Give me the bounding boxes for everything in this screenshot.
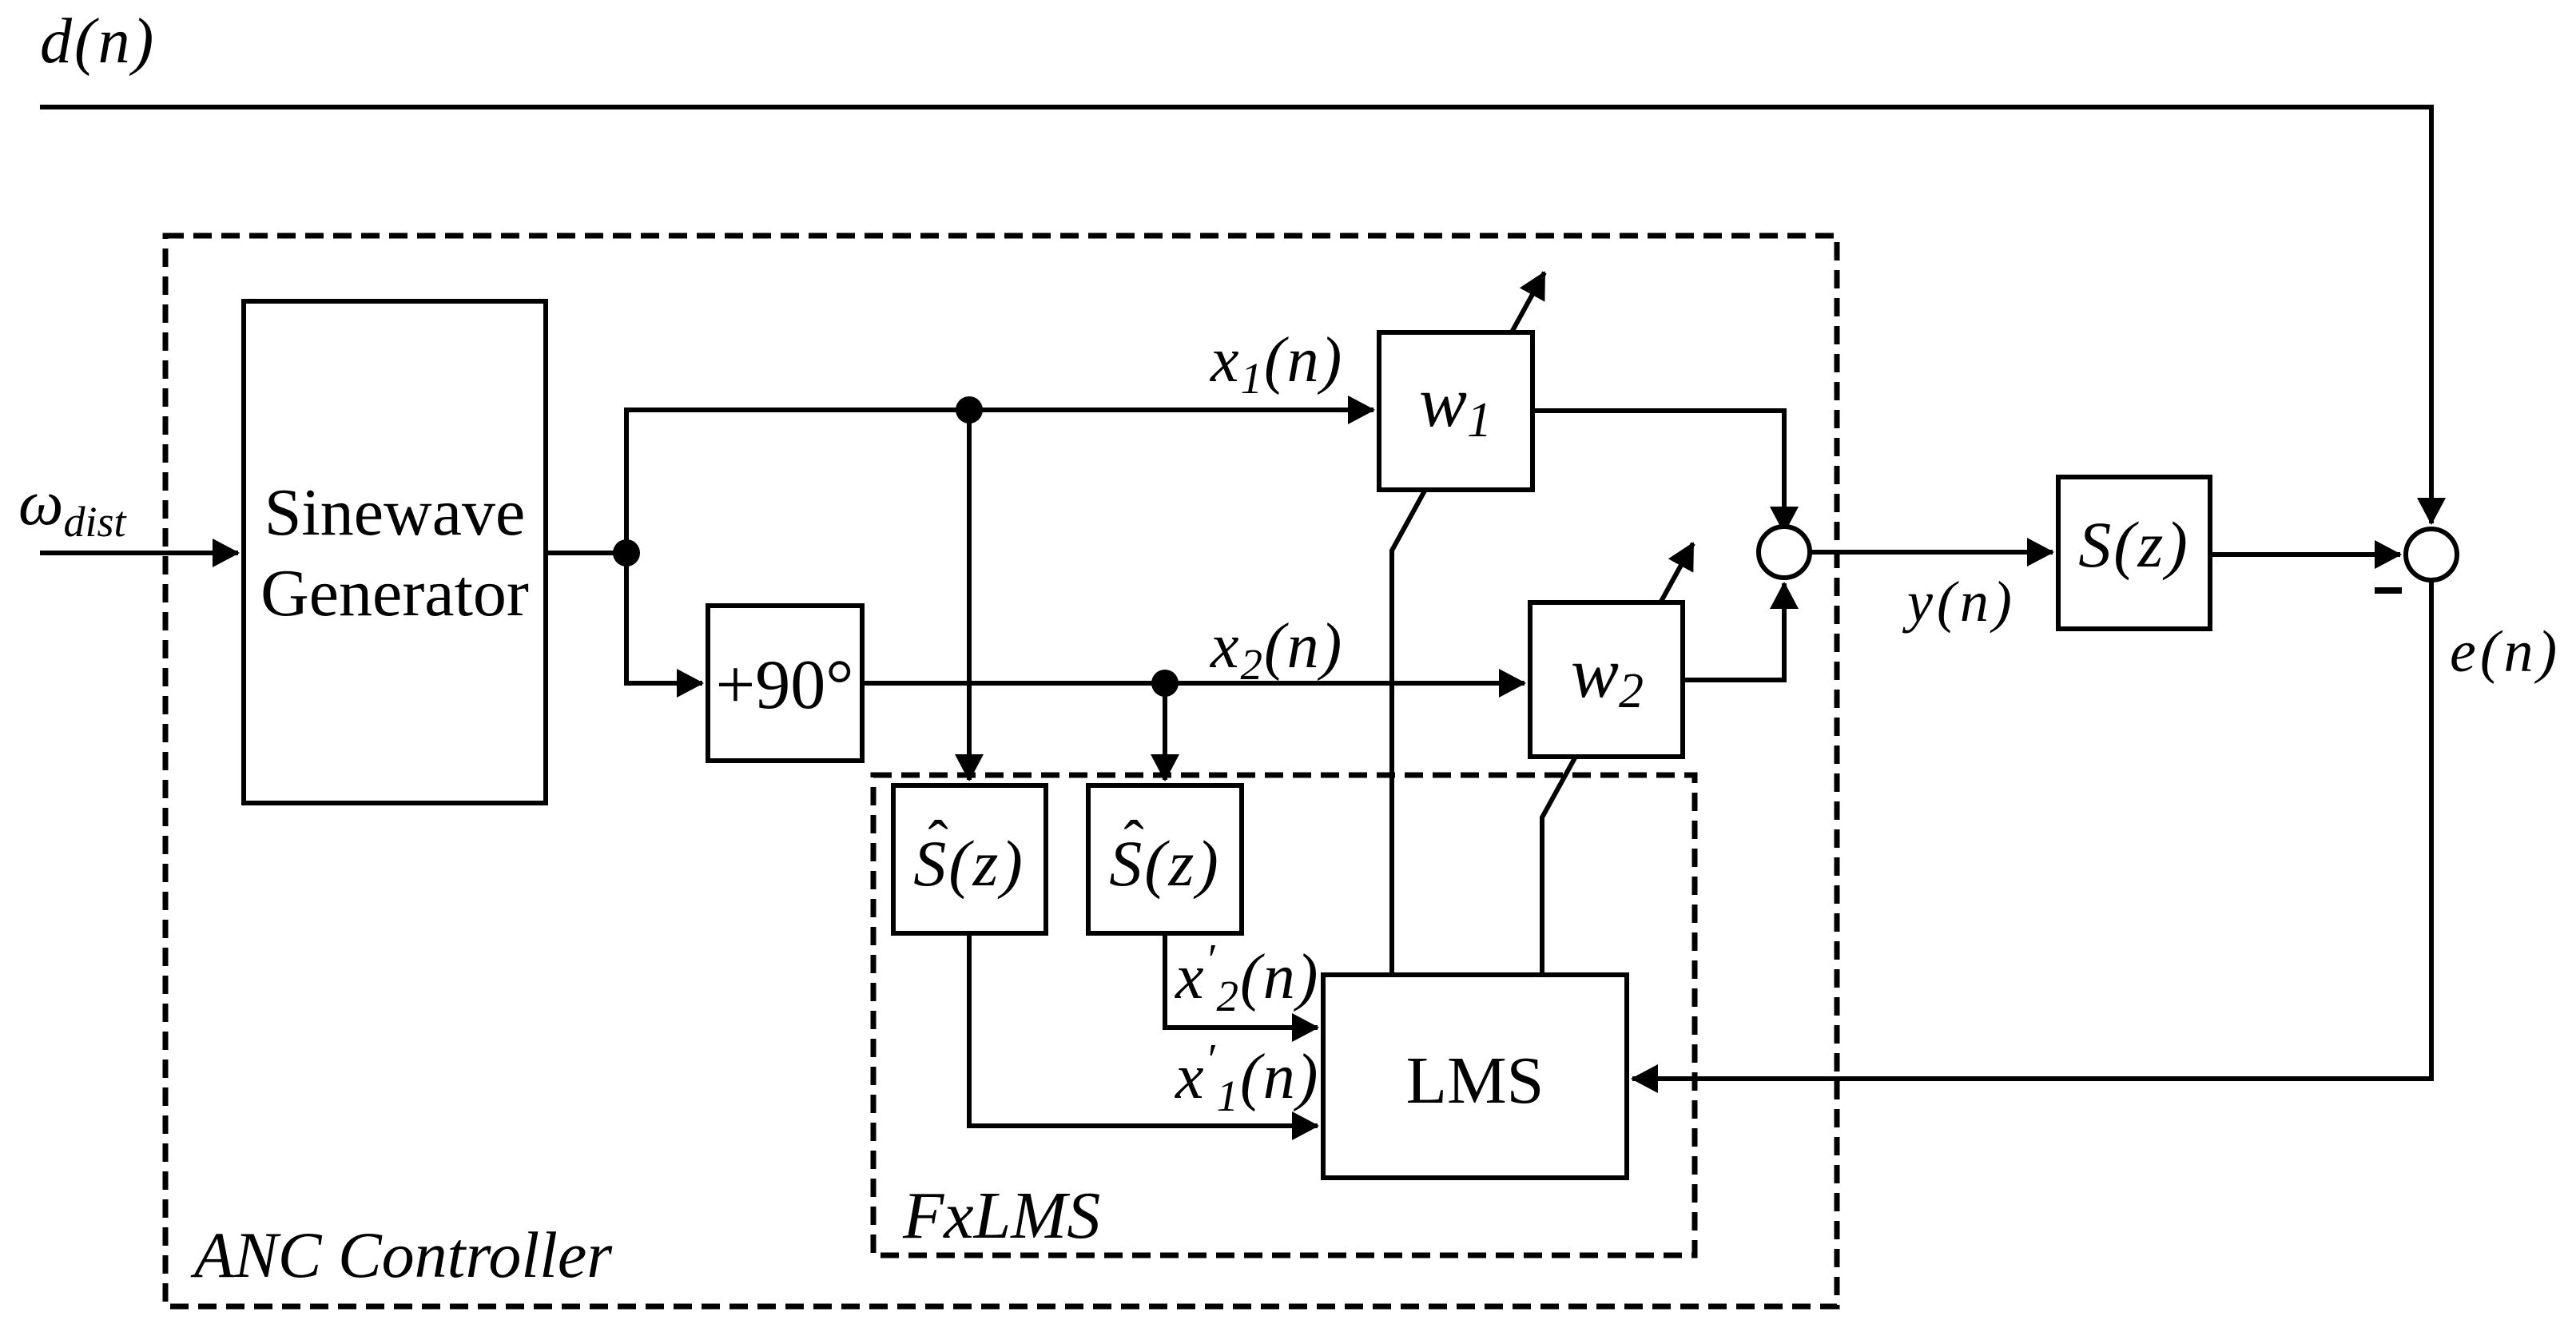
block S^(z) second — [1088, 785, 1242, 933]
wire +90 output x2 line into w2 — [862, 681, 1525, 686]
wire S^1 output x'1 into LMS — [969, 933, 1318, 1126]
wire LMS to w1 adaptation (diagonal, drawn under w1 box) — [1392, 272, 1544, 975]
wire node to x1 line into w1 — [626, 410, 1373, 553]
svg-text:FxLMS: FxLMS — [902, 1179, 1100, 1253]
filter w2 — [1530, 602, 1683, 757]
node dot on sinewave output — [613, 539, 640, 567]
wire LMS to w2 adaptation (diagonal, drawn under w2 box) — [1542, 543, 1693, 975]
dashed box FxLMS — [873, 775, 1695, 1255]
svg-text:x′2(n): x′2(n) — [1175, 935, 1319, 1020]
dashed box ANC Controller — [165, 236, 1837, 1306]
svg-text:Sinewave: Sinewave — [264, 475, 526, 550]
wire e(n) feedback to LMS — [1632, 580, 2431, 1079]
block S(z) — [2058, 477, 2210, 629]
svg-text:x′1(n): x′1(n) — [1175, 1035, 1319, 1120]
svg-text:LMS: LMS — [1406, 1044, 1544, 1118]
wire S^2 output x'2 into LMS — [1165, 933, 1318, 1028]
svg-text:ˆ: ˆ — [1123, 809, 1143, 876]
svg-text:ˆ: ˆ — [928, 809, 948, 876]
svg-text:y(n): y(n) — [1902, 570, 2016, 634]
node dot on x1 line — [956, 396, 983, 423]
wire x2 node down into S^2 — [1163, 683, 1167, 780]
svg-text:+90°: +90° — [716, 646, 854, 724]
svg-text:e(n): e(n) — [2450, 619, 2561, 685]
svg-text:x1(n): x1(n) — [1210, 325, 1343, 403]
block Sinewave Generator — [244, 301, 546, 803]
node dot on x2 line — [1151, 670, 1179, 697]
svg-text:d(n): d(n) — [40, 6, 156, 77]
wire node down to +90 input — [626, 553, 702, 683]
svg-text:x2(n): x2(n) — [1210, 611, 1343, 689]
block +90 — [708, 606, 862, 761]
block LMS — [1323, 975, 1627, 1178]
filter w1 — [1379, 332, 1532, 490]
wire d(n) top line to right summer — [40, 107, 2431, 523]
wire w2 output to summer1 — [1683, 583, 1784, 680]
block S^(z) first — [893, 785, 1046, 933]
wire w1 output to summer1 — [1532, 411, 1784, 532]
svg-text:ANC Controller: ANC Controller — [190, 1219, 613, 1291]
summer circle 2 — [2406, 529, 2457, 580]
minus sign at summer 2 — [2375, 587, 2402, 594]
svg-text:S(z): S(z) — [2078, 508, 2190, 581]
svg-text:ωdist: ωdist — [18, 468, 128, 546]
wire omega_dist input — [40, 551, 238, 555]
wire sinewave output to node — [546, 551, 626, 555]
wire S(z) to summer2 — [2210, 552, 2400, 557]
wire x1 node down into S^1 — [967, 410, 972, 780]
wire summer1 to S(z) — [1810, 550, 2053, 555]
summer circle 1 — [1759, 527, 1810, 578]
svg-text:Generator: Generator — [260, 556, 529, 630]
